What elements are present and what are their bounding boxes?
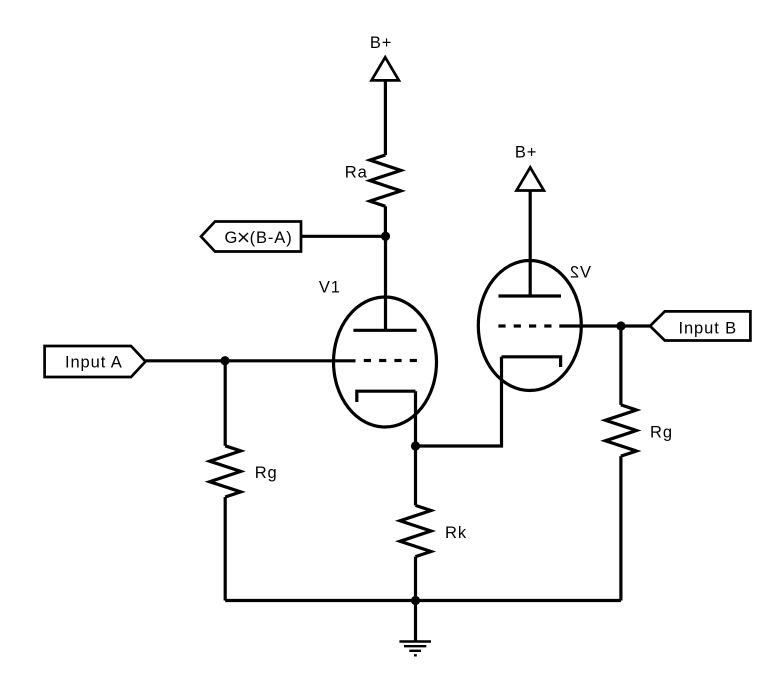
svg-text:G: G	[225, 229, 239, 247]
V1 cathode	[357, 391, 416, 402]
node B junction dot	[616, 321, 625, 330]
V1 grid dashes	[364, 359, 417, 362]
resistor Rk	[400, 505, 431, 556]
ground rail wire	[225, 599, 621, 602]
triode V1 envelope	[334, 297, 437, 427]
flag G×(B-A)	[201, 222, 301, 252]
wire V1 cathode to node K	[414, 391, 417, 446]
wire node K to Rk	[414, 446, 417, 505]
V2 plate bar	[499, 294, 562, 297]
wire node A to Rg (left)	[224, 361, 227, 446]
svg-text:(B-A): (B-A)	[250, 229, 293, 247]
node A junction dot	[220, 356, 229, 365]
svg-text:Input B: Input B	[679, 320, 738, 338]
wire Rg (left) to ground rail	[224, 497, 227, 601]
wire flag to node G	[301, 235, 386, 238]
ground stem wire	[414, 601, 417, 642]
node GND junction dot	[411, 596, 420, 605]
wire node G to V1 plate	[384, 236, 387, 330]
flag Input A	[45, 346, 146, 377]
V2 cathode	[502, 357, 561, 367]
svg-text:V2: V2	[569, 264, 591, 282]
wire Ra to node G	[384, 206, 387, 236]
wire B+ to V2 plate	[529, 191, 532, 296]
flag Input B	[650, 311, 750, 340]
resistor Rg (left)	[210, 446, 241, 497]
V1 plate bar	[353, 329, 416, 332]
wire Rg (right) to ground rail	[619, 456, 622, 600]
wire node K to V2 cathode	[416, 357, 502, 446]
ground symbol	[399, 642, 431, 656]
svg-text:Rg: Rg	[650, 424, 673, 442]
node K junction dot	[411, 441, 420, 450]
wire V2 grid to node B	[559, 324, 650, 327]
wire B+ to Ra	[384, 81, 387, 155]
node G junction dot	[381, 232, 390, 241]
svg-text:B+: B+	[515, 144, 537, 162]
svg-text:Rk: Rk	[445, 524, 467, 542]
power symbol B+ (top, feeds Ra)	[372, 57, 399, 80]
svg-text:B+: B+	[370, 34, 392, 52]
svg-text:Input A: Input A	[65, 354, 123, 372]
svg-text:Ra: Ra	[345, 163, 368, 181]
resistor Rg (right)	[605, 405, 636, 456]
resistor Ra	[370, 155, 401, 206]
V2 grid dashes	[498, 324, 551, 327]
triode V2 envelope	[478, 261, 581, 391]
power symbol B+ (feeds V2 plate)	[517, 167, 544, 190]
wire node B to Rg (right)	[619, 326, 622, 405]
wire Input A to V1 grid	[146, 359, 356, 362]
svg-text:Rg: Rg	[255, 464, 278, 482]
svg-text:V1: V1	[319, 279, 341, 297]
wire Rk to ground rail	[414, 557, 417, 601]
